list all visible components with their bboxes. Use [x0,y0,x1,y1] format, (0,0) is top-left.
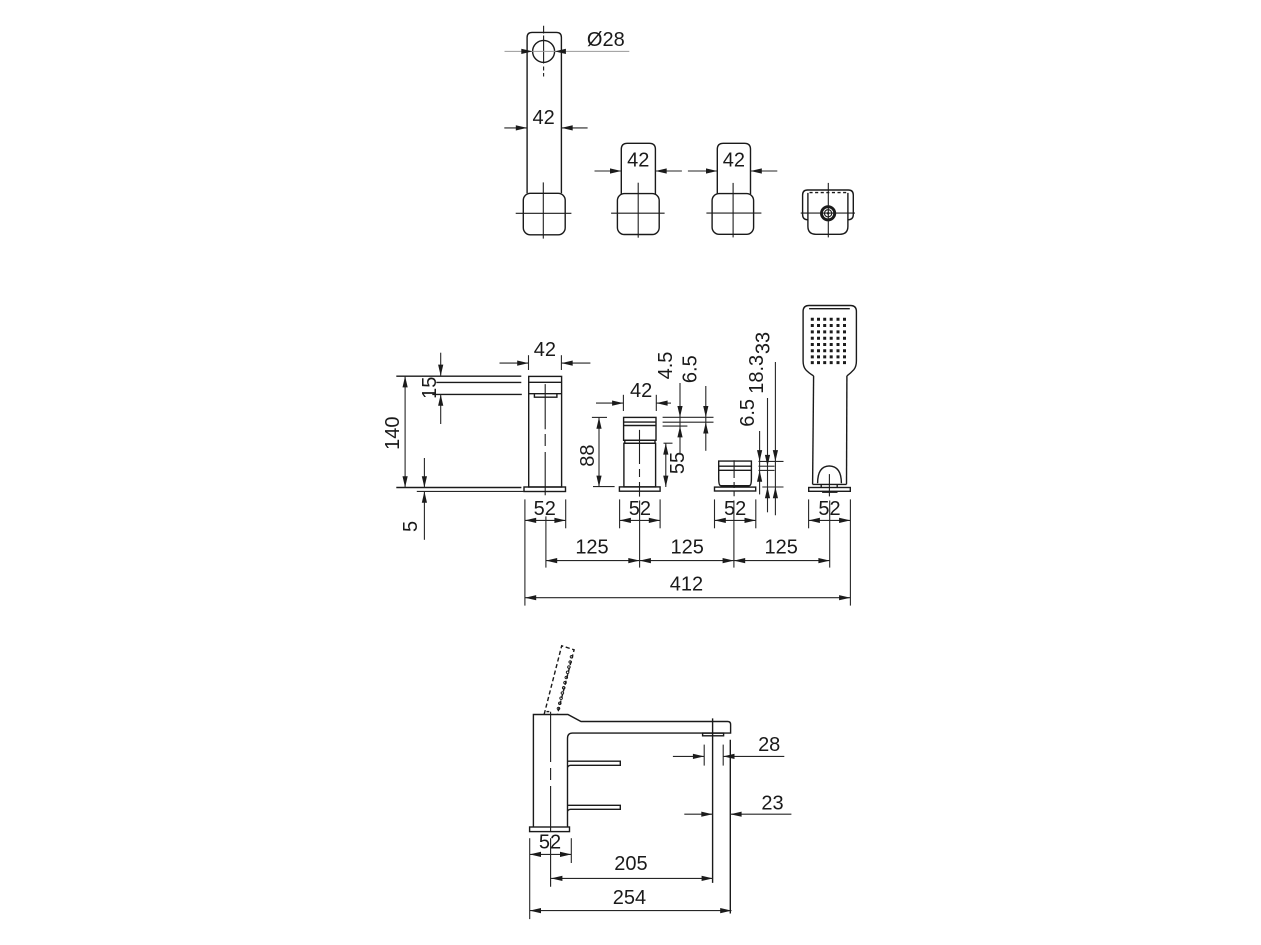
dim 42 valve 1 line [595,170,622,172]
base bottom extension line [417,490,524,492]
dim 28 ext ticks [703,745,705,766]
spout elevation centerline [544,384,546,495]
svg-text:42: 42 [532,107,554,129]
diverter body [719,461,752,486]
svg-text:125: 125 [671,537,704,559]
spout elevation column [529,376,562,487]
dim 125 line segment 2 [640,560,734,562]
shower elevation holder arch [818,466,842,483]
spout elevation aerator box [534,394,557,397]
svg-text:5: 5 [400,521,422,532]
valve elevation joint [625,440,655,443]
handset side view dashed outline [544,646,574,714]
svg-text:52: 52 [724,498,746,520]
dim 52 bottom ext lines [529,838,531,919]
dim 42 valve 2 line [688,170,717,172]
shower elevation handle [813,376,814,485]
handset hidden tick [547,711,550,713]
valve 1 plan handle [621,143,655,194]
dim 88 extension stubs [592,416,607,418]
dim 4.5 line [679,383,681,455]
dim 52 diverter line [715,519,756,521]
deck line left of spout [396,487,521,489]
outlet centerline and tube left edge [712,718,714,883]
column centerline side view [550,712,552,887]
tap body side view outline [533,715,730,828]
shower elevation spray grid [811,318,846,364]
valve elevation centerline [639,430,641,497]
valve 2 plan handle [717,143,750,194]
dim 28 line [673,755,704,757]
dim 55 line [665,443,667,487]
svg-text:4.5: 4.5 [655,352,677,380]
svg-text:412: 412 [670,574,703,596]
dim 55 extension stub [664,442,673,444]
dim 205 line [551,877,713,879]
spout base plate [524,487,566,492]
valve elevation base plate [619,487,660,491]
spout plan base square [523,193,565,235]
dim 52 valve ext lines [619,499,621,528]
svg-text:23: 23 [761,793,783,815]
spout elevation arm top line [396,375,521,377]
svg-text:205: 205 [614,853,647,875]
dim 125 line segment 1 [546,560,640,562]
spout plan view body [527,32,561,193]
svg-text:28: 28 [758,734,780,756]
svg-text:55: 55 [667,452,689,474]
spout plan base center mark [542,182,544,238]
svg-text:42: 42 [534,339,556,361]
dim 125 ext lines below centers [545,516,547,567]
dim 42 spout elevation ticks [528,355,530,370]
shower elevation holder neck ticks [820,484,822,487]
tap body spout outlet side [703,733,724,736]
shower elevation base dark bar [822,491,837,493]
dim 52 diverter ext lines [714,499,716,528]
svg-text:15: 15 [419,377,441,399]
handset side view nozzle dots [557,656,573,710]
dim 33 line [774,362,776,515]
supply pipe 1 side view [568,761,621,767]
svg-text:254: 254 [613,887,646,909]
diverter body line 2 [719,469,752,471]
spout elevation arm bottom line [432,393,522,395]
dim 52 bottom line [530,853,572,855]
valve 2 plan base square [712,194,754,235]
valve elevation handle line 2 [624,425,656,427]
shower holder plan center mark [827,183,829,238]
svg-text:42: 42 [723,150,745,172]
svg-text:33: 33 [753,332,775,354]
svg-text:Ø28: Ø28 [587,29,625,51]
dim 52 shower line [809,519,851,521]
svg-text:52: 52 [534,498,556,520]
valve 1 plan center mark [637,183,639,238]
shower elevation head [803,306,856,376]
spout plan circle center mark vertical [543,26,545,77]
shower holder plan spray face dashed edge [810,192,847,194]
dim Ø28 line [505,50,630,52]
dim 18.3 line [767,398,769,512]
shower elevation handle bottom line [813,483,847,485]
dim 52 valve line [620,519,661,521]
dim 52 shower ext lines [808,499,810,528]
svg-text:125: 125 [765,537,798,559]
dim 125 line segment 3 [734,560,830,562]
dim 42 spout elevation line [500,362,529,364]
spout elevation column cap line [529,381,562,383]
dim Ø28 arrows [521,49,532,54]
valve elevation body [624,443,656,487]
spout plan aerator circle [533,40,555,62]
diverter body line 1 [719,465,752,467]
dim 254 line [530,910,732,912]
dim 42 spout plan line [504,127,527,129]
shower elevation head top inner line [809,308,850,310]
svg-text:140: 140 [382,417,404,450]
dim 6.5 diverter line [759,431,761,494]
shower holder plan outer bracket [803,190,854,220]
dim 6.5 line [705,386,707,451]
svg-text:52: 52 [539,831,561,853]
dim 52 spout line [525,519,566,521]
valve elevation handle line 1 [624,421,656,423]
svg-text:42: 42 [630,380,652,402]
dim 15 line [440,353,442,376]
spout elevation arm mid line [436,381,521,383]
svg-text:18.3: 18.3 [746,355,768,394]
shower holder plan handset head square [808,193,848,234]
dim 88 line [598,417,600,487]
tube right edge [729,740,731,914]
diverter lip line [721,486,750,488]
dim 140 line [404,376,406,487]
dim 23 line [684,813,712,815]
dim 412 line [525,597,851,599]
base plate side view [530,827,570,832]
dim 42 valve elevation ticks [622,395,624,411]
shower holder plan swivel ring outer [821,207,834,220]
dim 5 line [423,458,425,488]
svg-text:6.5: 6.5 [679,355,701,383]
diverter centerline [733,460,735,496]
diverter base plate [715,487,756,491]
svg-text:42: 42 [627,150,649,172]
valve 2 plan center mark [732,183,734,238]
shower holder plan swivel ring center dot [827,212,830,215]
shower holder plan swivel ring mid [824,210,831,217]
svg-text:125: 125 [575,537,608,559]
shower elevation centerline [828,474,830,496]
svg-text:6.5: 6.5 [737,399,759,427]
valve elevation handle [624,417,656,440]
valve 1 plan base square [617,194,659,235]
shower elevation base plate [809,488,851,492]
svg-text:88: 88 [577,444,599,466]
supply pipe 2 side view [568,805,621,811]
spout elevation column lower line [529,393,562,395]
dim 42 valve elevation line [596,402,623,404]
dim 52 spout ext lines [524,499,526,605]
handle extension lines right [663,416,714,418]
diverter extension lines right [759,460,784,462]
